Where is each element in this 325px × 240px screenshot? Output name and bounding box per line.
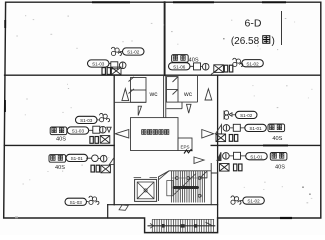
svg-text:): ) bbox=[272, 36, 275, 47]
svg-text:S1-01: S1-01 bbox=[71, 156, 84, 161]
svg-text:S1-03: S1-03 bbox=[72, 129, 85, 134]
svg-text:wc: wc bbox=[149, 91, 159, 98]
svg-text:40S: 40S bbox=[189, 57, 199, 63]
svg-text:S1-02: S1-02 bbox=[246, 61, 259, 66]
svg-text:S1-01: S1-01 bbox=[249, 126, 262, 131]
svg-text:40S: 40S bbox=[55, 165, 65, 171]
svg-text:S1-03: S1-03 bbox=[70, 200, 83, 205]
svg-text:40S: 40S bbox=[56, 137, 66, 143]
svg-text:S1-03: S1-03 bbox=[92, 62, 105, 67]
svg-text:40S: 40S bbox=[275, 165, 285, 171]
svg-text:S1-06: S1-06 bbox=[173, 64, 186, 69]
svg-text:S1-03: S1-03 bbox=[80, 118, 93, 123]
svg-text:6-D: 6-D bbox=[245, 18, 262, 30]
svg-text:(26.58: (26.58 bbox=[231, 36, 260, 47]
svg-text:40S: 40S bbox=[272, 136, 282, 142]
svg-text:S1-01: S1-01 bbox=[250, 154, 263, 159]
svg-text:S1-02: S1-02 bbox=[240, 113, 253, 118]
svg-text:S1-02: S1-02 bbox=[247, 199, 260, 204]
svg-text:EPS: EPS bbox=[180, 145, 189, 150]
svg-text:wc: wc bbox=[183, 91, 193, 98]
svg-text:S1-02: S1-02 bbox=[127, 50, 140, 55]
